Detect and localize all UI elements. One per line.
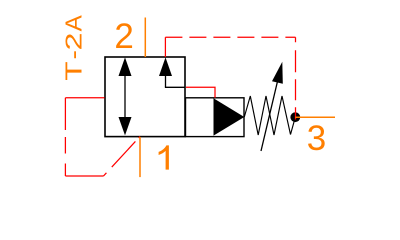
- svg-text:T: T: [61, 62, 87, 81]
- svg-text:3: 3: [307, 119, 326, 158]
- svg-text:2: 2: [114, 17, 133, 56]
- svg-text:A: A: [61, 15, 87, 32]
- svg-text:2: 2: [61, 33, 87, 51]
